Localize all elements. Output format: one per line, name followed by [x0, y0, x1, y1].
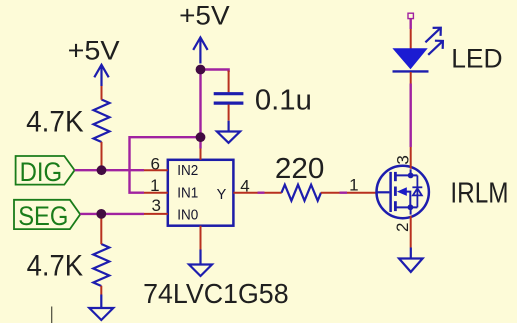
capacitor C1 plates — [214, 94, 244, 103]
LED D1 cathode bar — [393, 70, 429, 72]
ground symbol (below R2) — [89, 295, 113, 321]
svg-text:2: 2 — [393, 223, 412, 232]
Q1 source line — [397, 206, 418, 208]
svg-text:4.7K: 4.7K — [27, 249, 84, 282]
svg-text:DIG: DIG — [20, 157, 63, 187]
LED D1 pin 1 stub — [410, 29, 412, 49]
junction node D4 — [196, 132, 206, 142]
svg-text:6: 6 — [150, 155, 159, 174]
junction node D3 — [196, 65, 206, 75]
LED D1 pin 2 stub — [410, 72, 412, 84]
svg-text:Y: Y — [217, 187, 227, 203]
svg-text:74LVC1G58: 74LVC1G58 — [143, 278, 289, 309]
svg-text:SEG: SEG — [18, 201, 68, 231]
Q1 drain pin stub — [410, 147, 412, 169]
svg-text:4.7K: 4.7K — [26, 106, 84, 139]
IC U1 74LVC1G58 body — [168, 160, 234, 226]
svg-text:220: 220 — [275, 153, 325, 185]
power +5V symbol PWR2 (middle) — [193, 37, 207, 63]
net label DIG — [16, 156, 75, 185]
svg-text:LED: LED — [451, 44, 502, 74]
U1 pin 1 stub — [144, 192, 168, 194]
wire R3 to Q1 gate — [340, 191, 348, 193]
Q1 source internal node — [410, 207, 412, 214]
Q1 gate lead — [377, 191, 390, 193]
U1 VCC pin stub — [200, 149, 202, 160]
Q1 gate bar — [389, 172, 392, 212]
resistor R1 body — [94, 100, 110, 143]
LED D1 emission arrow 2 — [428, 41, 443, 55]
Q1 bulk line with arrow — [406, 192, 410, 208]
svg-text:+5V: +5V — [68, 35, 120, 65]
U1 pin 3 stub — [144, 213, 168, 215]
U1 GND pin stub — [200, 226, 202, 250]
ground symbol (below Q1) — [399, 248, 423, 272]
Q1 channel segments — [394, 172, 397, 211]
wire node D4 left — [130, 137, 201, 193]
U1 pin 6 stub — [144, 169, 168, 171]
svg-text:IN2: IN2 — [177, 163, 198, 179]
junction node D1 (DIG/R1) — [97, 165, 107, 175]
resistor R3 body — [282, 185, 322, 201]
LED D1 triangle — [392, 48, 427, 69]
svg-text:IN1: IN1 — [177, 186, 198, 202]
wire LED top — [410, 19, 412, 29]
ground symbol (below U1) — [189, 250, 212, 277]
resistor R2 pin 1 — [100, 216, 102, 245]
net label SEG — [14, 200, 80, 229]
wire SEG to IN0 — [80, 213, 144, 215]
LED D1 emission arrow 1 — [425, 28, 440, 43]
sheet border mark — [51, 307, 53, 323]
power +5V symbol PWR1 (left) — [94, 65, 108, 86]
Q1 body circle — [377, 166, 429, 218]
resistor R2 body — [93, 244, 109, 286]
wire Y to R3 — [258, 191, 265, 193]
Q1 drain internal node — [410, 169, 412, 175]
resistor R1 pin 1 — [101, 86, 103, 100]
Q1 gate pin stub — [347, 192, 377, 194]
LED D1 unconnected pin square — [408, 13, 413, 18]
Q1 body diode — [416, 175, 418, 207]
Q1 drain line — [397, 174, 418, 176]
Q1 source pin stub — [410, 216, 412, 248]
ground symbol (below C1) — [217, 121, 240, 143]
svg-text:3: 3 — [393, 155, 412, 164]
wire node D4 down to IC — [199, 137, 201, 148]
capacitor C1 pin 2 — [228, 105, 230, 121]
wire +5V to capacitor — [201, 70, 229, 73]
junction node D2 (SEG/R2) — [96, 209, 106, 219]
resistor R2 pin 2 — [100, 286, 102, 295]
svg-text:3: 3 — [151, 196, 160, 215]
svg-text:IRLM: IRLM — [450, 178, 508, 210]
resistor R3 pin 1 — [265, 192, 282, 194]
wire LED to Q1 drain — [410, 84, 412, 148]
wire +5V down — [199, 70, 201, 138]
U1 pin 4 stub (Y) — [233, 192, 257, 194]
svg-text:IN0: IN0 — [177, 207, 198, 223]
svg-text:+5V: +5V — [179, 0, 230, 30]
resistor R1 pin 2 — [101, 142, 103, 170]
resistor R3 pin 2 — [321, 192, 340, 194]
wire DIG to IN2 — [75, 169, 144, 171]
transistor Q1 IRLM (N-MOSFET) — [377, 166, 429, 218]
svg-text:0.1u: 0.1u — [255, 85, 312, 117]
svg-text:1: 1 — [349, 176, 358, 195]
svg-text:4: 4 — [240, 176, 249, 195]
svg-text:1: 1 — [150, 176, 159, 195]
capacitor C1 pin 1 — [228, 71, 230, 93]
